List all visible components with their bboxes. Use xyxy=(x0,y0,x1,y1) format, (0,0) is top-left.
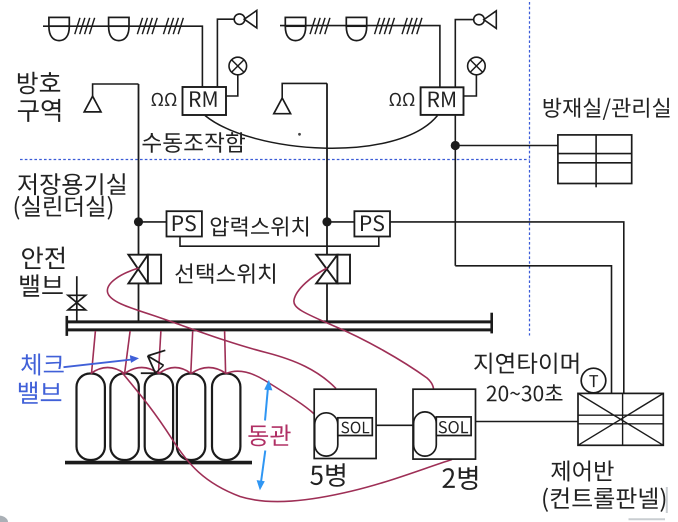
copper pipe: manifold drop 2 xyxy=(125,331,131,374)
detector S2 (zone1) xyxy=(109,17,129,40)
pipe riser 2 (zone2) xyxy=(326,83,328,254)
wire hatch marks (4-wire) zone1 group1 xyxy=(75,18,95,34)
wire: SOL2 to control panel xyxy=(476,421,579,423)
label 선택스위치 xyxy=(175,263,275,283)
label (실린더실) xyxy=(15,196,113,220)
stray dot xyxy=(298,133,301,136)
label PS (PS2) xyxy=(361,215,384,231)
label 안전 xyxy=(22,247,64,269)
detector S1 (zone1) xyxy=(49,17,69,40)
copper pipe: cylinder header arcs xyxy=(91,368,227,374)
label PS (PS1) xyxy=(173,215,196,231)
label 방재실/관리실 xyxy=(544,98,670,120)
horn B1 (zone1) xyxy=(234,10,257,28)
safety valve (hourglass) xyxy=(68,295,86,310)
wire: node to monitoring room panel xyxy=(455,145,558,147)
manifold header pipe (double line) xyxy=(67,322,492,330)
junction node on riser 2 xyxy=(322,217,331,226)
gray artifact bottom-right lines xyxy=(629,487,667,519)
wire hatch marks zone2 group3 xyxy=(402,18,422,34)
copper pipe: long run to pilot cylinder (2병) xyxy=(122,373,452,502)
copper pipe: manifold drop 4 xyxy=(191,331,193,374)
label 수동조작함 xyxy=(143,132,246,153)
storage cylinders (5 CO2 bottles) xyxy=(77,374,241,461)
wire: PS1-PS2 lower loop xyxy=(180,237,379,247)
label 2병 xyxy=(443,466,478,490)
pipe riser 1 (zone1 selector to nozzle) xyxy=(138,84,140,255)
copper pipe: manifold drop 3 xyxy=(158,331,161,374)
copper pipe: cylinder 5 run to SOL box1 xyxy=(226,371,314,414)
label ΩΩ (zone1) xyxy=(152,93,177,106)
label 밸브 (blue) xyxy=(19,382,61,404)
label RM (RM2) xyxy=(429,92,455,108)
wire hatch marks zone2 group2 xyxy=(375,18,395,34)
solenoid SOL2 box xyxy=(436,417,471,436)
wire: RM2 down to control circuit xyxy=(454,115,456,266)
label 지연타이머 xyxy=(474,353,578,374)
wire: horn B1 to RM1 xyxy=(217,19,234,87)
pointer arrow to check valve xyxy=(64,355,140,367)
wire: control circuit to panel xyxy=(455,266,611,394)
pilot unit box (2병) xyxy=(413,389,476,459)
gray artifact bottom-left xyxy=(0,516,8,522)
manifold left end cap xyxy=(66,316,69,336)
wire: node1 to PS1 xyxy=(139,221,167,223)
copper pipe: selector V2 pilot line to SOL box2 xyxy=(294,268,434,389)
discharge nozzle zone2 (triangle) xyxy=(274,98,291,114)
pipe riser 2 lower segment xyxy=(326,283,328,321)
pilot unit box (5병) xyxy=(314,389,376,458)
label 저장용기실 xyxy=(18,173,126,195)
wire: nozzle riser zone2 elbow xyxy=(282,83,327,98)
control panel box xyxy=(578,393,663,445)
detector S4 (zone2) xyxy=(346,17,366,40)
alarm lamp L1 (zone1) xyxy=(229,57,247,75)
wire: lamp L1 to RM1 xyxy=(226,75,238,96)
label 밸브 xyxy=(20,274,62,296)
curve: manual box pointer RM1 to RM2 xyxy=(205,116,438,149)
pilot cylinder capsule (5병) xyxy=(315,413,338,456)
label SOL (SOL1) xyxy=(341,422,369,434)
discharge nozzle zone1 (triangle) xyxy=(84,96,101,112)
label 방호구역 xyxy=(18,72,60,95)
label 체크 (blue) xyxy=(21,354,64,376)
timer symbol T xyxy=(581,368,606,393)
selector valve V1 (hourglass) xyxy=(128,255,148,284)
selector valve V2 (hourglass) xyxy=(316,255,337,284)
label RM (RM1) xyxy=(190,91,216,107)
wire: zone2 detector loop xyxy=(280,26,440,88)
monitoring room panel (table symbol) xyxy=(558,135,632,187)
manifold right end cap xyxy=(490,313,493,334)
label 20~30초 xyxy=(487,384,563,401)
detector S3 (zone2) xyxy=(285,17,305,40)
junction node below RM2 xyxy=(451,141,460,150)
label 제어반 xyxy=(551,461,613,482)
safety valve stem xyxy=(76,276,78,321)
manual station RM2 box xyxy=(421,87,464,115)
wire: SOL1 to SOL2 xyxy=(376,424,413,426)
alarm lamp L2 (zone2) xyxy=(468,57,486,75)
wire: nozzle riser zone1 elbow xyxy=(93,84,139,96)
wire: node2 to PS2 xyxy=(327,221,354,223)
copper pipe pointer arrow (down) xyxy=(257,451,266,491)
wire hatch marks zone1 group3 xyxy=(163,18,183,34)
wire hatch marks zone2 group1 xyxy=(310,18,330,34)
copper pipe pointer arrow (up) xyxy=(264,380,272,421)
manual station RM1 box xyxy=(183,87,227,115)
junction node on riser 1 xyxy=(134,217,143,226)
pressure switch PS1 box xyxy=(167,211,202,236)
dashed boundary horizontal (방호구역/저장용기실 separation) xyxy=(20,159,530,161)
label SOL (SOL2) xyxy=(439,421,469,433)
label (컨트롤판넬) xyxy=(543,487,665,512)
horn B2 (zone2) xyxy=(474,11,497,29)
copper pipe: selector V1 pilot line to SOL box1 xyxy=(107,268,336,389)
copper pipe: manifold drop 5 xyxy=(225,331,226,374)
wire: lamp L2 to RM2 xyxy=(464,75,477,96)
dashed boundary vertical (방재실 separation) xyxy=(529,2,531,336)
copper pipe: manifold drop 1 xyxy=(92,331,96,374)
label ΩΩ (zone2) xyxy=(390,93,415,106)
label 동관 (crimson) xyxy=(248,425,290,447)
check valve symbol xyxy=(141,350,166,373)
solenoid SOL1 box xyxy=(338,418,373,436)
wire: horn B2 to RM2 xyxy=(455,20,474,88)
selector valve V2 actuator box xyxy=(337,255,350,284)
pipe riser 1 lower segment xyxy=(138,283,140,321)
selector valve V1 actuator box xyxy=(148,255,161,284)
pressure switch PS2 box xyxy=(354,211,390,236)
label 5병 xyxy=(310,463,344,486)
wire hatch marks zone1 group2 xyxy=(137,18,157,34)
wire: zone1 detector loop xyxy=(43,26,202,87)
wire: PS2 to control panel xyxy=(390,222,624,394)
label T xyxy=(589,375,598,387)
pilot cylinder capsule (2병) xyxy=(414,412,437,456)
label 압력스위치 xyxy=(211,217,308,237)
cylinder base line xyxy=(65,461,252,465)
